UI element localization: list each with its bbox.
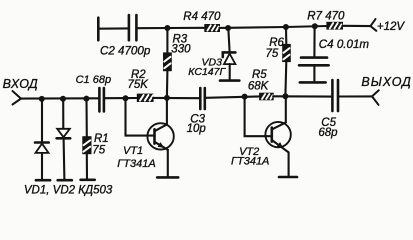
svg-text:R6: R6: [269, 37, 284, 49]
zener diode VD3: [223, 28, 236, 80]
capacitor C1: [99, 88, 104, 111]
svg-text:68K: 68K: [248, 80, 270, 92]
transistor VT2: [265, 96, 290, 176]
wire C1 to R2: [105, 97, 137, 99]
svg-text:75: 75: [92, 145, 105, 157]
svg-text:VD1, VD2 КД503: VD1, VD2 КД503: [24, 184, 113, 196]
svg-text:10p: 10p: [187, 123, 207, 135]
svg-text:+12V: +12V: [377, 21, 406, 33]
node rail R6 junction: [283, 24, 289, 30]
svg-text:330: 330: [171, 43, 191, 55]
resistor R6: [283, 27, 290, 96]
node R1 junction: [83, 96, 89, 102]
ground VT2 emitter: [279, 176, 297, 179]
svg-text:R1: R1: [94, 133, 109, 145]
wire rail R4 to R6: [219, 26, 286, 29]
resistor R3: [164, 28, 172, 98]
capacitor C4: [299, 26, 329, 81]
wire input to C1: [21, 97, 98, 99]
node D VT2 collector junction: [282, 93, 288, 99]
svg-text:ВХОД: ВХОД: [3, 77, 39, 91]
svg-text:68p: 68p: [318, 127, 338, 139]
node VD2 junction: [60, 96, 66, 102]
ground R1: [81, 179, 95, 182]
svg-text:R5: R5: [252, 69, 267, 81]
wire R5 to C5: [273, 95, 331, 97]
wire R2 to C3: [153, 97, 199, 99]
diode VD2: [57, 99, 71, 180]
wire VT1 base L: [126, 98, 148, 135]
capacitor C5: [332, 80, 338, 111]
svg-text:КС147Г: КС147Г: [188, 66, 226, 78]
svg-text:ВЫХОД: ВЫХОД: [361, 75, 411, 89]
svg-text:VT1: VT1: [123, 145, 143, 157]
svg-text:C2 4700p: C2 4700p: [100, 44, 151, 57]
resistor R5: [260, 93, 273, 99]
ground C4: [300, 81, 326, 84]
wire C2 left: [98, 27, 127, 29]
svg-text:R7 470: R7 470: [307, 11, 345, 23]
svg-text:75: 75: [266, 48, 279, 60]
wire rail R6 to R7: [286, 26, 327, 27]
capacitor C3: [200, 88, 205, 109]
resistor R2: [137, 94, 153, 101]
svg-text:ГТ341А: ГТ341А: [117, 158, 155, 170]
capacitor C2 terminal bar: [97, 18, 100, 41]
node VD1 junction: [39, 96, 45, 102]
resistor R7: [327, 22, 342, 29]
svg-text:C4 0.01m: C4 0.01m: [319, 38, 370, 51]
ground VD1: [36, 179, 50, 182]
wire rail R3 to R4: [167, 27, 205, 29]
ground VD3: [220, 79, 239, 82]
ground VD2: [58, 179, 72, 182]
svg-text:C1 68p: C1 68p: [76, 74, 111, 86]
svg-text:R4 470: R4 470: [183, 11, 221, 23]
node rail R3 junction: [164, 25, 170, 31]
input connector ВХОД: [13, 91, 22, 105]
node C VT2 base junction: [242, 94, 248, 100]
wire R7 to +12V: [342, 25, 370, 27]
transistor VT1: [147, 98, 173, 177]
connector +12V: [371, 19, 377, 31]
wire C5 to output: [339, 95, 372, 97]
wire VT2 base L: [245, 97, 266, 137]
diode VD1: [35, 99, 49, 180]
node rail C4 junction: [312, 23, 318, 29]
wire C3 to R5: [206, 96, 260, 97]
ground VT1 emitter: [157, 176, 178, 179]
resistor R1: [83, 99, 91, 180]
node B VT1 collector junction: [164, 95, 170, 101]
capacitor C2: [129, 15, 137, 40]
node rail VD3 junction: [225, 25, 231, 31]
output connector ВЫХОД: [372, 90, 379, 105]
node A VT1 base junction: [123, 95, 129, 101]
svg-text:ГТ341А: ГТ341А: [231, 155, 269, 167]
wire C2 to rail junction: [138, 27, 168, 29]
svg-text:75K: 75K: [128, 79, 150, 91]
resistor R4: [205, 25, 220, 32]
